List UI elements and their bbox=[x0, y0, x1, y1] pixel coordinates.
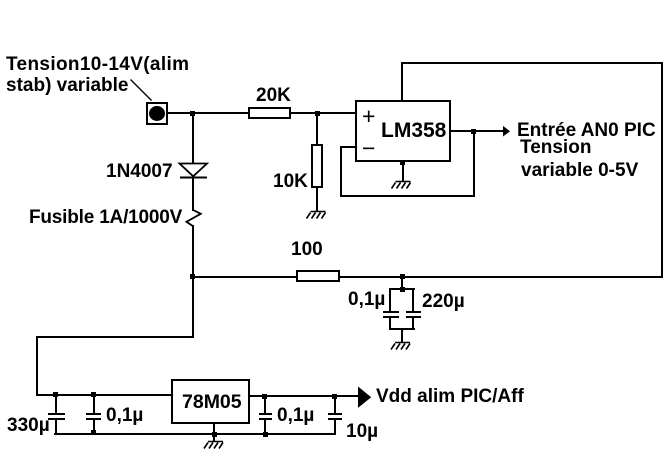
wire: left vertical down to regulator input rail bbox=[36, 336, 38, 396]
wire: inverting input stub bbox=[340, 146, 355, 148]
wire: stem from rail to cap pair bbox=[401, 277, 403, 290]
resistor R1 20K bbox=[248, 107, 291, 119]
node: junction 0,1u C5 top bbox=[262, 394, 267, 399]
wire: feedback right vertical from output bbox=[473, 131, 475, 197]
node: junction at input terminal branch bbox=[190, 111, 195, 116]
node: junction 20K / 10K / op-amp bbox=[315, 111, 320, 116]
text: 220u value bbox=[422, 292, 465, 311]
wire: bottom ground rail bbox=[54, 433, 336, 435]
text: 10K value bbox=[273, 172, 308, 191]
wire: regulator input rail bbox=[36, 394, 172, 396]
wire: right vertical rail down to 100-ohm rail bbox=[661, 62, 663, 278]
wire: feedback left vertical bbox=[340, 146, 342, 197]
capacitor C4 0,1u top lead bbox=[93, 395, 95, 413]
text: 1N4007 value bbox=[106, 162, 173, 181]
diode D1 1N4007 bbox=[180, 164, 208, 178]
wire: fuse to 100-ohm rail and down bbox=[192, 225, 194, 338]
capacitor C3 330u bottom lead bbox=[55, 419, 57, 433]
text: 0,1u value C5 bbox=[277, 406, 314, 425]
wire: left 0,1u cap top lead bbox=[389, 289, 391, 312]
wire: op-amp ground pin bbox=[402, 162, 404, 181]
wire: cap pair top bridge bbox=[389, 288, 415, 290]
wire: right 220u cap top lead bbox=[412, 289, 414, 312]
capacitor C4 0,1u plates bbox=[86, 413, 101, 415]
capacitor C3 330u top lead bbox=[55, 395, 57, 413]
regulator U2 78M05 body bbox=[171, 379, 250, 424]
node: junction output / feedback bbox=[471, 129, 476, 134]
text: 0,1u value C4 bbox=[106, 406, 143, 425]
wire: label pointer line bbox=[131, 80, 152, 101]
wire: regulator output rail to Vdd arrow bbox=[249, 395, 359, 397]
text: 330u value bbox=[7, 416, 50, 435]
text: 100 value bbox=[291, 240, 323, 259]
op-amp U1 label LM358 bbox=[381, 120, 446, 141]
arrow: op-amp output to PIC bbox=[503, 126, 510, 137]
text: input label bbox=[6, 55, 189, 74]
text: output label line 3 bbox=[521, 161, 638, 180]
node: junction 0,1u C5 bottom bbox=[263, 432, 268, 437]
text: 0,1u value (cap pair) bbox=[348, 290, 385, 309]
node: junction 330u top bbox=[53, 392, 58, 397]
input terminal J1 contact bbox=[149, 106, 165, 121]
node: junction 0,1u C4 bottom bbox=[91, 430, 96, 435]
wire: regulator ground pin bbox=[213, 424, 215, 441]
wire: left 0,1u cap bottom lead bbox=[389, 317, 391, 330]
text: input label line 2 bbox=[6, 76, 129, 95]
wire: top node from terminal to op-amp + input bbox=[166, 112, 356, 114]
capacitor C3 330u plates bbox=[48, 413, 65, 415]
text: output label line 1 bbox=[517, 121, 656, 140]
text: Vdd label bbox=[376, 387, 524, 406]
ground (10K) bbox=[307, 212, 326, 219]
op-amp U1 LM358 body bbox=[355, 100, 451, 162]
capacitor C5 0,1u top lead bbox=[264, 396, 266, 414]
capacitor C4 0,1u bottom lead bbox=[93, 419, 95, 433]
wire: op-amp output to arrow bbox=[451, 130, 503, 132]
input terminal J1 bbox=[146, 102, 168, 125]
regulator U2 label 78M05 bbox=[182, 393, 242, 413]
node: junction cap pair top bbox=[400, 287, 405, 292]
capacitor C6 10u top lead bbox=[334, 396, 336, 414]
capacitor C6 10u plates bbox=[328, 413, 342, 415]
node: junction fuse / 100-ohm rail bbox=[190, 274, 195, 279]
wire: cap pair bottom bridge bbox=[389, 328, 415, 330]
text: 10u value bbox=[346, 422, 378, 441]
op-amp U1 plus input label bbox=[362, 105, 375, 128]
text: 20K value bbox=[256, 86, 291, 105]
capacitor C5 0,1u bottom lead bbox=[264, 419, 266, 434]
resistor R2 10K bbox=[311, 144, 323, 188]
node: junction regulator ground bbox=[212, 432, 217, 437]
text: output label line 2 bbox=[520, 138, 591, 157]
node: junction 0,1u C4 top bbox=[91, 392, 96, 397]
arrow: Vdd output bbox=[358, 387, 371, 408]
wire: diode cathode to fuse bbox=[192, 177, 194, 211]
node: junction 100-ohm rail / caps bbox=[400, 274, 405, 279]
wire: cap pair stem to ground bbox=[401, 329, 403, 342]
wire: vertical from node to 10K top bbox=[316, 113, 318, 145]
text: fuse label bbox=[29, 208, 182, 227]
wire: vertical from input node down to diode bbox=[192, 113, 194, 164]
node: junction op-amp ground pin bbox=[400, 160, 405, 165]
capacitor C6 10u bottom lead bbox=[334, 419, 336, 434]
wire: op-amp V+ pin up bbox=[401, 62, 403, 100]
capacitor C5 0,1u plates bbox=[259, 413, 272, 415]
op-amp U1 minus input label bbox=[362, 137, 375, 160]
fuse F1 bbox=[186, 210, 200, 226]
capacitor C2 220u plate pair bbox=[406, 311, 422, 313]
capacitor C1 0,1u left plate pair bbox=[383, 311, 399, 313]
wire: 10K bottom to ground bbox=[316, 188, 318, 211]
wire: 100-ohm rail bbox=[192, 276, 663, 278]
ground (regulator) bbox=[204, 442, 223, 449]
wire: top rail to right side bbox=[401, 62, 663, 64]
wire: right 220u cap bottom lead bbox=[412, 317, 414, 330]
wire: feedback bottom horizontal bbox=[340, 195, 475, 197]
node: junction 10u top bbox=[332, 394, 337, 399]
ground (op-amp) bbox=[392, 182, 411, 189]
resistor R3 100 bbox=[296, 270, 340, 282]
wire: horizontal jog to bottom-left bbox=[36, 336, 194, 338]
ground (cap pair) bbox=[391, 343, 410, 350]
